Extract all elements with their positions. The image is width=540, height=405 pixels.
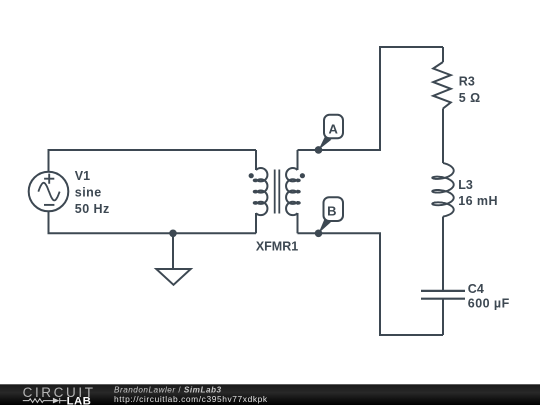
svg-text:600 µF: 600 µF [468,296,510,310]
wire left-loop top [49,150,257,172]
terminal B tail wedge [319,218,331,233]
svg-text:A: A [329,122,339,137]
terminal A flag box [324,115,343,139]
svg-text:sine: sine [75,186,102,200]
svg-text:LAB: LAB [67,396,92,405]
wire left-loop bottom [49,211,257,233]
svg-text:B: B [327,204,336,219]
footer black bar [0,384,540,405]
svg-text:http://circuitlab.com/c395hv77: http://circuitlab.com/c395hv77xdkpk [114,394,268,404]
inductor L3 lead bottom [442,217,444,291]
transformer secondary lead bottom [297,213,299,233]
svg-text:50 Hz: 50 Hz [75,202,110,216]
inductor L3 winding [432,163,453,217]
resistor R3 zigzag [433,62,451,109]
svg-text:L3: L3 [458,178,473,192]
capacitor C4 top plate [421,290,465,292]
V1 plus sign [44,174,54,184]
svg-text:C4: C4 [468,282,484,296]
transformer secondary winding [286,168,300,215]
node junction dot (ground) [169,230,177,238]
node A dot [315,146,323,154]
V1 minus sign [44,204,54,206]
capacitor C4 bottom plate [421,298,465,300]
wire secondary bottom from node B and right down-riser [298,233,444,335]
svg-text:R3: R3 [459,75,475,89]
node B dot [315,230,323,238]
transformer primary lead bottom [255,213,257,233]
svg-text:XFMR1: XFMR1 [256,240,298,254]
svg-text:5 Ω: 5 Ω [459,91,481,105]
svg-text:V1: V1 [75,169,90,183]
voltage source V1 circle [29,172,69,212]
transformer XFMR1 primary lead top [255,150,257,170]
resistor R3 lead top [442,47,444,62]
transformer primary phase dot [249,173,254,178]
resistor R3 lead bottom / inductor lead top [442,109,444,164]
terminal B flag box [324,197,344,221]
wire secondary top to node A and right riser [298,47,444,150]
V1 sine waveform [38,183,59,201]
terminal A tail wedge [319,136,332,150]
transformer secondary lead top [297,150,299,170]
svg-text:16 mH: 16 mH [458,194,498,208]
capacitor C4 lead bottom [442,299,444,335]
CircuitLab logo circuit line with resistor and diode [23,398,67,404]
transformer primary winding [254,168,268,215]
transformer core [275,170,280,214]
ground triangle [156,269,190,285]
transformer secondary phase dot [300,173,305,178]
ground stem [172,233,174,269]
